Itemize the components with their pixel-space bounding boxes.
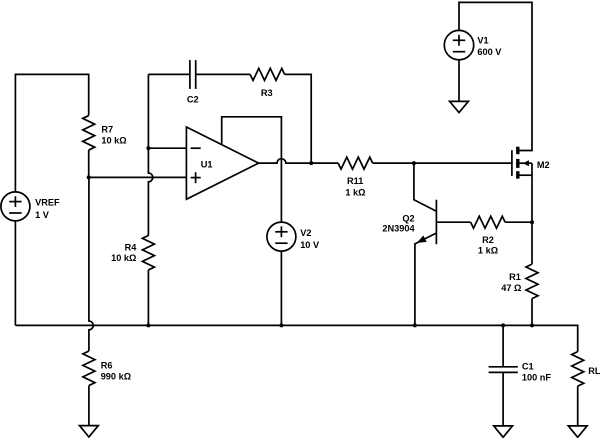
- svg-text:1 V: 1 V: [35, 210, 50, 220]
- svg-text:47 Ω: 47 Ω: [501, 283, 521, 293]
- svg-text:R4: R4: [125, 243, 138, 253]
- svg-text:100 nF: 100 nF: [522, 372, 551, 382]
- svg-text:C1: C1: [522, 361, 534, 371]
- svg-text:R3: R3: [261, 88, 273, 98]
- svg-text:R6: R6: [101, 361, 113, 371]
- svg-text:R1: R1: [509, 272, 521, 282]
- svg-text:M2: M2: [537, 160, 550, 170]
- svg-text:C2: C2: [187, 95, 199, 105]
- svg-text:10 V: 10 V: [300, 240, 320, 250]
- svg-text:R7: R7: [101, 124, 113, 134]
- svg-text:U1: U1: [201, 159, 213, 169]
- svg-text:990 kΩ: 990 kΩ: [101, 371, 131, 381]
- svg-text:R2: R2: [482, 235, 494, 245]
- svg-text:10 kΩ: 10 kΩ: [111, 253, 136, 263]
- svg-text:RL: RL: [588, 366, 600, 376]
- svg-text:10 kΩ: 10 kΩ: [101, 135, 126, 145]
- svg-text:Q2: Q2: [402, 213, 414, 223]
- svg-text:VREF: VREF: [35, 198, 60, 208]
- svg-text:2N3904: 2N3904: [382, 223, 415, 233]
- svg-text:R11: R11: [347, 176, 363, 186]
- svg-text:1 kΩ: 1 kΩ: [345, 188, 365, 198]
- svg-text:V1: V1: [477, 35, 488, 45]
- svg-text:1 kΩ: 1 kΩ: [478, 246, 498, 256]
- svg-text:600 V: 600 V: [477, 47, 502, 57]
- svg-text:V2: V2: [300, 228, 311, 238]
